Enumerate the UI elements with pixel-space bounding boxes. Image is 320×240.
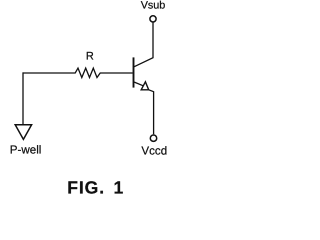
svg-text:Vsub: Vsub xyxy=(141,0,166,12)
svg-text:R: R xyxy=(86,50,94,62)
svg-text:Vccd: Vccd xyxy=(141,145,167,158)
svg-text:FIG. 1: FIG. 1 xyxy=(67,178,124,198)
svg-text:P-well: P-well xyxy=(10,144,42,157)
